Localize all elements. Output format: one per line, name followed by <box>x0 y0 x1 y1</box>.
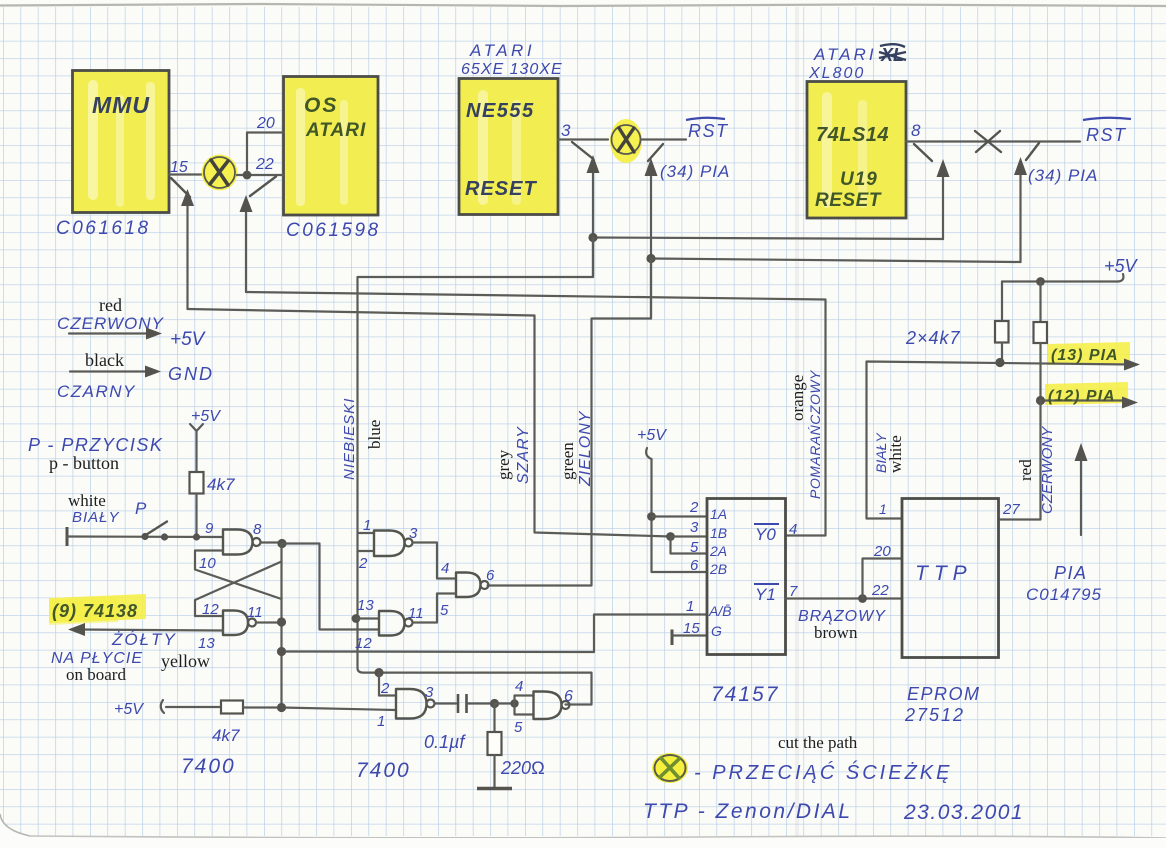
svg-text:ATARI: ATARI <box>813 45 877 64</box>
+5V Y-hook connector <box>190 424 203 440</box>
svg-text:1: 1 <box>686 598 694 615</box>
svg-text:- PRZECIĄĆ ŚCIEŻKĘ: - PRZECIĄĆ ŚCIEŻKĘ <box>694 760 952 784</box>
svg-text:(12) PIA: (12) PIA <box>1048 388 1116 405</box>
svg-text:10: 10 <box>199 555 216 572</box>
capacitor C1 0.1uF <box>458 694 467 713</box>
wire: blue net horizontal from NE555-side arrow to 74LS14 pin8 arrow <box>593 238 943 240</box>
svg-text:U19: U19 <box>840 169 878 190</box>
svg-text:6: 6 <box>690 557 699 574</box>
wire X2 to RST label <box>642 138 686 140</box>
switch input terminal bar <box>66 527 69 546</box>
wire R3 bottom down to (12)PIA node (crosses (13) wire) <box>1039 343 1041 401</box>
IC 74LS14 U19 RESET box (ATARI XL800) <box>807 82 906 219</box>
wire MMU pin 15 to cut X1 <box>169 173 202 175</box>
svg-text:red: red <box>1016 459 1035 481</box>
svg-text:8: 8 <box>253 521 262 538</box>
svg-text:on board: on board <box>66 665 126 684</box>
svg-text:13: 13 <box>357 597 374 614</box>
svg-text:15: 15 <box>683 620 700 637</box>
net label RST (74LS14) <box>1083 118 1131 145</box>
wire 74LS14 pin 8 to RST <box>906 140 1080 142</box>
svg-text:74LS14: 74LS14 <box>816 124 889 146</box>
IC NE555 RESET box (ATARI 65XE 130XE) <box>459 79 558 215</box>
svg-text:RST: RST <box>1086 125 1127 145</box>
svg-text:P: P <box>135 499 147 518</box>
svg-text:4: 4 <box>789 521 797 538</box>
+5V hook connector at 74157 <box>646 448 651 459</box>
svg-text:1B: 1B <box>710 525 727 541</box>
svg-text:5: 5 <box>440 602 449 619</box>
resistor R2 4k7 <box>995 321 1009 343</box>
wire grey net: from MMU arrow down, horizontal, down to pin3/5 junction (SZARY) <box>188 309 671 537</box>
wire blue net: vertical + jog left + long vertical down (NIEBIESKI) <box>358 238 594 673</box>
wire capacitor to node <box>467 702 495 704</box>
arrow up (blue wire) below NE555 pin 3 <box>587 155 600 277</box>
arrowhead yellow wire pointing left <box>68 623 85 636</box>
NAND gate U3b (7400 #2, pins 4,5 -> 6) <box>456 573 489 598</box>
svg-text:+5V: +5V <box>191 408 221 425</box>
svg-text:RST: RST <box>688 121 729 141</box>
node junction at pin22 wire <box>243 171 252 180</box>
svg-text:9: 9 <box>205 520 214 537</box>
svg-text:3: 3 <box>425 684 434 701</box>
wire node down to gate D input 2 <box>379 673 396 696</box>
svg-text:+5V: +5V <box>637 427 667 444</box>
74157 internal label Y0 with overline <box>754 524 779 544</box>
node at bracket <box>510 699 518 707</box>
svg-text:P - PRZYCISK: P - PRZYCISK <box>28 435 163 455</box>
wire feedback: gate E output up and left to gate D input 2 node <box>379 673 592 705</box>
svg-text:12: 12 <box>202 601 219 618</box>
svg-text:2×4k7: 2×4k7 <box>905 328 961 348</box>
node (13)PIA wire to R2 <box>995 358 1004 367</box>
legend: red / CZERWONY -> +5V <box>57 295 207 350</box>
wire yellow net to 7400 #1 pin 13 (ZOLTY) <box>78 630 223 631</box>
arrow up to PIA from below <box>1075 443 1088 535</box>
svg-text:cut the path: cut the path <box>778 733 858 752</box>
svg-text:green: green <box>558 442 577 480</box>
highlight (13) PIA <box>1048 342 1130 365</box>
bracket tying gate E inputs 4 and 5 <box>515 696 534 715</box>
svg-text:NIEBIESKI: NIEBIESKI <box>341 398 358 480</box>
node output 11 <box>277 617 286 626</box>
resistor R4 4k7 (horizontal) <box>221 701 243 714</box>
svg-text:20: 20 <box>873 543 891 560</box>
wire gate A output 3 to gate B input 4 <box>413 543 457 579</box>
svg-text:NE555: NE555 <box>466 100 535 122</box>
svg-text:22: 22 <box>255 156 274 173</box>
svg-text:11: 11 <box>408 605 424 622</box>
wire red net: (12) PIA horizontal <box>1041 399 1130 401</box>
svg-text:23.03.2001: 23.03.2001 <box>903 801 1024 824</box>
wire red net vertical down to TTP pin 27 (CZERWONY) <box>999 401 1041 520</box>
cut slash left of X2 <box>572 142 592 158</box>
svg-text:6: 6 <box>564 688 573 705</box>
node blue column to gate C input 13 <box>352 614 361 623</box>
arrow up (grey wire) under MMU pin 15 <box>181 189 194 309</box>
svg-text:5: 5 <box>690 539 699 556</box>
svg-text:CZARNY: CZARNY <box>57 382 136 401</box>
svg-text:ATARI: ATARI <box>305 120 366 141</box>
node output 8 <box>277 539 286 548</box>
legend cut symbol X4 <box>652 753 688 783</box>
+5V hook connector top right <box>1118 274 1123 282</box>
highlight (9) 74138 <box>49 594 146 623</box>
terminal bar at 74157 pin 15 (G) <box>671 630 674 646</box>
svg-text:TTP: TTP <box>915 562 973 585</box>
IC U5 74157 box <box>707 499 786 655</box>
cut slash left of X3 <box>914 144 932 161</box>
svg-text:74157: 74157 <box>711 683 779 706</box>
node brown wire to TTP pin 20 branch <box>858 594 867 603</box>
wire terminal to pin 15 <box>672 634 707 636</box>
wire cross-coupling: output8 column to input 12 <box>195 562 282 617</box>
svg-text:+5V: +5V <box>170 329 207 350</box>
svg-text:15: 15 <box>170 159 188 176</box>
wire R5 to ground <box>493 755 495 788</box>
NAND gate U2a (7400 #1, pins 9,10 -> 8) <box>223 530 261 555</box>
net label RST (NE555) <box>686 118 729 141</box>
svg-text:3: 3 <box>561 121 571 140</box>
svg-text:+5V: +5V <box>1104 256 1139 276</box>
cut slash right of X3 <box>1026 143 1039 160</box>
wire brown net: Y1 pin7 to TTP pin 22 (BRAZOWY) <box>786 597 903 599</box>
svg-text:6: 6 <box>486 567 495 584</box>
svg-text:grey: grey <box>494 449 513 480</box>
wire node down to pin 5 <box>671 537 708 554</box>
svg-text:MMU: MMU <box>92 92 150 118</box>
scan top edge <box>0 4 1166 6</box>
svg-text:C014795: C014795 <box>1026 585 1102 604</box>
node (12)PIA to red vertical <box>1036 396 1045 405</box>
svg-text:p - button: p - button <box>49 453 119 473</box>
wire blue stub to gate A input 1 <box>358 532 375 534</box>
cut symbol X3 (pencil X) <box>975 131 1001 152</box>
svg-text:A/B̄: A/B̄ <box>708 603 732 619</box>
svg-text:27512: 27512 <box>904 705 965 725</box>
NAND gate U4a (7400 #3, pins 2,1 -> 3) <box>396 689 435 719</box>
NAND gate U4b (7400 #3, pins 4,5 -> 6) <box>534 692 570 720</box>
svg-text:XL800: XL800 <box>808 65 865 82</box>
wire gate A input 2 stub <box>358 550 375 552</box>
svg-text:OS: OS <box>304 94 338 117</box>
wire output8 to 7400#2 gate C input 12 <box>282 544 379 630</box>
svg-text:12: 12 <box>355 635 372 652</box>
arrow up to 74LS14 (34) PIA side <box>1014 157 1027 262</box>
node +5V to pin 2 <box>647 512 656 521</box>
arrowhead (13) PIA <box>1124 359 1140 371</box>
svg-text:8: 8 <box>911 121 921 140</box>
wire +5V down to 74157 pins 2 and 6 <box>652 459 708 572</box>
svg-text:7400: 7400 <box>356 759 411 782</box>
wire branch up to TTP pin 20 <box>863 559 903 599</box>
node long wire at latch column <box>277 647 286 656</box>
node cap / R5 / gate E inputs <box>490 699 499 708</box>
svg-text:220Ω: 220Ω <box>500 758 545 778</box>
svg-text:RESET: RESET <box>815 190 882 211</box>
svg-text:5: 5 <box>514 719 523 736</box>
cut symbol X2 (circled X, highlighted) <box>610 119 642 163</box>
svg-text:11: 11 <box>247 604 263 621</box>
svg-text:ATARI: ATARI <box>469 41 535 60</box>
switch P (push button lever) <box>145 522 167 536</box>
wire node to gate C input 13 <box>356 617 379 619</box>
svg-text:4: 4 <box>441 560 449 577</box>
wire +5V to resistor R1 <box>195 440 197 472</box>
svg-text:1: 1 <box>377 713 385 730</box>
wire gate D output 3 to capacitor C1 <box>435 702 457 704</box>
paper crease (scan artifact) <box>795 7 799 836</box>
node R4/latch column <box>277 703 286 712</box>
wire NE555 pin 3 to cut X2 <box>558 138 608 140</box>
svg-text:3: 3 <box>690 519 699 536</box>
svg-text:Y0: Y0 <box>755 525 776 544</box>
arrow up (orange wire) under node <box>240 195 253 292</box>
wire: green net horizontal to 74LS14 (34)PIA arrow <box>651 259 1021 263</box>
IC U6 TTP (EPROM 27512) box <box>902 499 999 658</box>
74157 internal label Y1 with overline <box>754 584 779 604</box>
svg-text:CZERWONY: CZERWONY <box>1039 426 1056 514</box>
wire latch vertical feedback column <box>280 544 282 708</box>
svg-text:65XE 130XE: 65XE 130XE <box>461 61 563 78</box>
legend: black / CZARNY -> GND <box>57 350 214 401</box>
svg-text:7400: 7400 <box>181 755 236 778</box>
highlight (12) PIA <box>1045 382 1128 405</box>
svg-text:(13) PIA: (13) PIA <box>1051 347 1119 364</box>
svg-text:blue: blue <box>365 420 384 449</box>
svg-text:2: 2 <box>358 555 368 572</box>
svg-text:red: red <box>99 295 122 315</box>
svg-text:(34) PIA: (34) PIA <box>1028 166 1098 185</box>
svg-text:1: 1 <box>879 501 887 517</box>
svg-text:BIAŁY: BIAŁY <box>72 509 120 526</box>
svg-text:orange: orange <box>788 375 807 421</box>
node gate D input-2 / feedback <box>374 668 383 677</box>
cut slash right of node <box>250 177 276 197</box>
svg-text:white: white <box>68 491 106 510</box>
svg-text:2: 2 <box>380 680 390 697</box>
wire R4 to latch column node and on to gate D input 1 <box>243 708 396 711</box>
arrowhead (12) PIA <box>1122 397 1138 409</box>
resistor R5 220 ohm <box>488 732 502 755</box>
svg-text:white: white <box>886 435 905 473</box>
wire node down to resistor R5 <box>493 704 495 733</box>
svg-text:C061618: C061618 <box>56 218 151 239</box>
svg-text:ŻÓŁTY: ŻÓŁTY <box>111 630 177 649</box>
svg-text:RESET: RESET <box>465 178 537 200</box>
svg-text:13: 13 <box>198 635 215 652</box>
svg-text:EPROM: EPROM <box>907 684 981 704</box>
node on blue vertical at y237 <box>588 233 597 242</box>
wire R2 bottom to (13)PIA net <box>1001 343 1003 364</box>
IC U-MMU box C061618 <box>73 71 170 213</box>
IC OS ATARI box C061598 <box>284 77 379 216</box>
NAND gate U3a (7400 #2, pins 1,2 -> 3) <box>374 531 413 557</box>
wire OS pin 20 L-shape down to node <box>247 133 284 172</box>
node +5V rail to R3 column <box>1036 277 1045 286</box>
svg-text:GND: GND <box>168 364 214 384</box>
svg-text:(9) 74138: (9) 74138 <box>52 601 138 621</box>
svg-text:4: 4 <box>515 678 523 695</box>
svg-text:PIA: PIA <box>1054 563 1088 583</box>
wire switch input <box>67 535 223 538</box>
svg-text:4k7: 4k7 <box>212 726 240 745</box>
scan rounded bottom-left corner <box>0 814 30 848</box>
svg-text:ZIELONY: ZIELONY <box>577 410 594 487</box>
scan bottom page edge <box>30 836 1166 838</box>
wire gate output 8 to node <box>261 541 283 543</box>
svg-text:Y1: Y1 <box>755 585 776 604</box>
+5V hook connector bottom left <box>161 700 164 713</box>
svg-text:SZARY: SZARY <box>515 426 532 484</box>
svg-text:brown: brown <box>814 623 858 642</box>
resistor R1 4k7 <box>190 472 204 494</box>
node grey wire to pins 3/5 <box>666 532 675 541</box>
svg-text:2A: 2A <box>709 543 727 559</box>
svg-text:0.1µf: 0.1µf <box>424 732 466 752</box>
wire net: latch output column to 74157 pin 1 select (long bottom horizontal) <box>282 615 708 653</box>
wire X1 to node, node to OS pin 22 <box>237 174 283 176</box>
svg-text:2: 2 <box>689 499 699 516</box>
wire output 11 to node <box>256 621 281 623</box>
svg-text:black: black <box>85 350 124 370</box>
wire +5V rail top right <box>1002 280 1118 282</box>
svg-text:27: 27 <box>1002 501 1020 518</box>
svg-text:C061598: C061598 <box>286 220 381 241</box>
svg-text:G: G <box>711 623 722 639</box>
ground symbol <box>477 787 512 790</box>
node on green vertical at y258 <box>646 254 655 263</box>
svg-text:yellow: yellow <box>161 651 210 671</box>
wire R1 to switch node <box>195 494 197 538</box>
NAND gate U3c (7400 #2, pins 13,12 -> 11) <box>379 611 413 636</box>
svg-text:2B: 2B <box>709 561 727 577</box>
svg-text:20: 20 <box>256 115 275 132</box>
wire node to pin 3 <box>671 535 708 537</box>
resistor R3 4k7 (drop from +5V node) <box>1039 282 1041 323</box>
svg-text:POMARAŃCZOWY: POMARAŃCZOWY <box>807 369 823 499</box>
label ATARI XL800, crossed-out XL <box>808 44 906 82</box>
NAND gate U2b (7400 #1, pins 12,13 -> 11) <box>223 611 256 636</box>
cut symbol X1 (circled X, highlighted) <box>202 155 238 191</box>
wire green net: vertical down, jog left, down to 7400 pin6 output (ZIELONY) <box>488 259 652 586</box>
arrow up (green wire) below (34) PIA <box>645 158 658 319</box>
arrow up to 74LS14 pin 8 side <box>937 159 950 239</box>
svg-text:+5V: +5V <box>114 701 144 718</box>
wire +5V to resistor R4 <box>166 706 221 708</box>
svg-text:22: 22 <box>871 582 889 599</box>
wire gate C output 11 to gate B input 5 <box>413 594 457 623</box>
wire node to pin 2 <box>652 515 708 517</box>
cut slash right of X2 <box>648 144 663 161</box>
wire orange net: from node down, long horizontal, down to 74157 Y0 (POMARANCZOWY) <box>246 292 826 536</box>
wire +5V rail down to resistor R2 <box>1001 282 1003 322</box>
wire cross-coupling: input 10 to output11 column <box>195 551 282 600</box>
svg-text:(34) PIA: (34) PIA <box>660 162 730 181</box>
svg-text:1A: 1A <box>710 506 727 522</box>
wire node to gate E input bracket <box>495 702 515 704</box>
svg-text:TTP - Zenon/DIAL: TTP - Zenon/DIAL <box>643 800 853 823</box>
cut slash left of X1 <box>171 178 190 197</box>
svg-text:3: 3 <box>409 525 418 542</box>
svg-text:4k7: 4k7 <box>207 475 235 494</box>
svg-text:1: 1 <box>363 517 371 534</box>
wire white net: TTP pin1 up and right to (13) PIA arrow <box>867 362 1132 519</box>
